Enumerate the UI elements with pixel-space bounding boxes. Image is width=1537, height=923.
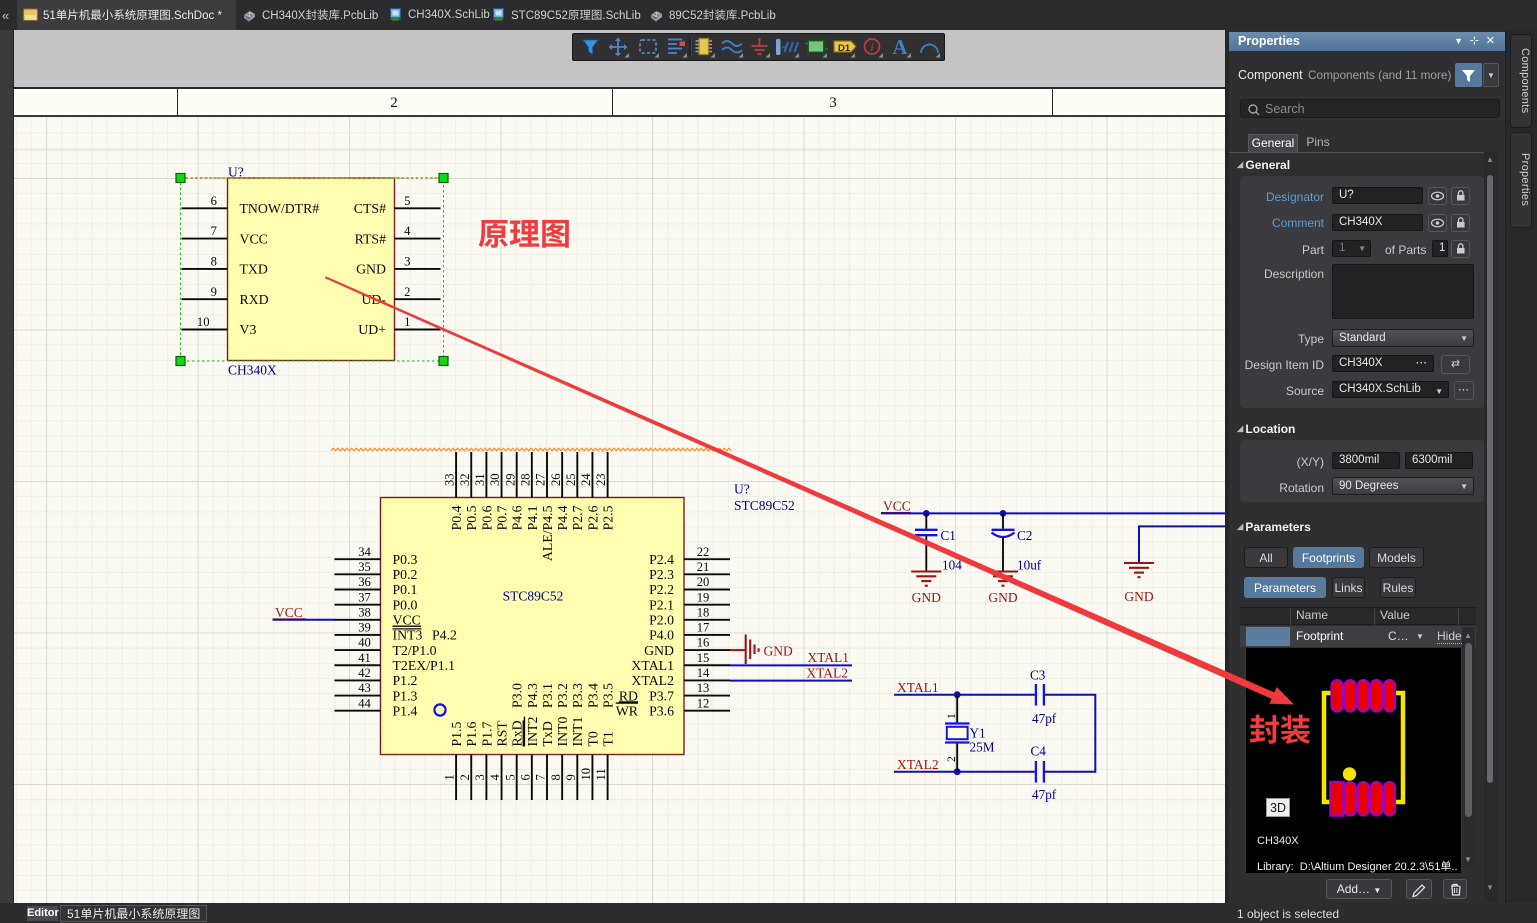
svg-text:P1.4: P1.4 bbox=[393, 703, 418, 718]
pin 21 bbox=[684, 573, 730, 575]
svg-text:30: 30 bbox=[488, 473, 502, 486]
svg-text:P2.2: P2.2 bbox=[649, 582, 674, 597]
pin 44 bbox=[335, 710, 381, 712]
svg-text:38: 38 bbox=[358, 605, 371, 619]
ground GND under C2 bbox=[988, 570, 1018, 572]
svg-text:10: 10 bbox=[197, 315, 210, 329]
svg-text:C3: C3 bbox=[1030, 668, 1046, 683]
footprint courtyard bbox=[1324, 693, 1403, 802]
svg-text:4: 4 bbox=[404, 224, 411, 238]
svg-text:10: 10 bbox=[579, 768, 593, 781]
svg-text:6: 6 bbox=[518, 774, 532, 780]
pin 8 INT0 bbox=[561, 755, 563, 801]
svg-text:XTAL1: XTAL1 bbox=[631, 658, 674, 673]
svg-text:2: 2 bbox=[946, 756, 958, 762]
svg-text:UD+: UD+ bbox=[358, 322, 386, 337]
svg-text:6: 6 bbox=[211, 194, 217, 208]
svg-text:P4.1: P4.1 bbox=[525, 505, 540, 530]
svg-text:GND: GND bbox=[644, 643, 674, 658]
svg-text:25M: 25M bbox=[970, 740, 995, 755]
svg-text:31: 31 bbox=[473, 473, 487, 486]
pin 4 RST bbox=[501, 755, 503, 801]
pin 33 P0.4 bbox=[455, 452, 457, 498]
svg-text:33: 33 bbox=[443, 473, 457, 486]
svg-text:P4.0: P4.0 bbox=[649, 628, 674, 643]
svg-text:STC89C52: STC89C52 bbox=[503, 589, 564, 604]
svg-text:34: 34 bbox=[358, 545, 371, 559]
pin 3 GND bbox=[395, 268, 441, 270]
pin 16 bbox=[684, 649, 730, 651]
svg-text:P0.4: P0.4 bbox=[449, 505, 464, 530]
pin 13 bbox=[684, 695, 730, 697]
svg-text:1: 1 bbox=[946, 713, 958, 719]
svg-text:RTS#: RTS# bbox=[355, 231, 386, 246]
pin 9 INT1 bbox=[576, 755, 578, 801]
svg-text:29: 29 bbox=[503, 473, 517, 486]
svg-text:22: 22 bbox=[697, 545, 710, 559]
svg-text:P1.5: P1.5 bbox=[449, 721, 464, 746]
wire C3 right bbox=[1045, 695, 1095, 772]
svg-text:P0.2: P0.2 bbox=[393, 567, 418, 582]
svg-text:C4: C4 bbox=[1031, 744, 1047, 759]
pin 4 RTS# bbox=[395, 238, 441, 240]
svg-text:P3.1: P3.1 bbox=[540, 683, 555, 708]
pin 5 RxD bbox=[516, 755, 518, 801]
svg-text:INT2: INT2 bbox=[525, 717, 540, 747]
capacitor C2 bbox=[1002, 513, 1004, 528]
svg-text:P0.5: P0.5 bbox=[464, 505, 479, 530]
svg-text:P0.6: P0.6 bbox=[479, 505, 494, 530]
svg-text:4: 4 bbox=[488, 774, 502, 781]
svg-text:26: 26 bbox=[549, 473, 563, 486]
svg-text:P0.1: P0.1 bbox=[393, 582, 418, 597]
svg-text:P4.2: P4.2 bbox=[432, 628, 457, 643]
svg-text:P4.4: P4.4 bbox=[555, 505, 570, 530]
component U? CH340X bbox=[228, 178, 395, 361]
pin 8 TXD bbox=[182, 268, 228, 270]
capacitor C1 bbox=[925, 513, 927, 528]
svg-text:40: 40 bbox=[358, 636, 371, 650]
junction XTAL1/Y1 bbox=[954, 691, 961, 698]
svg-text:13: 13 bbox=[697, 681, 710, 695]
floating dark toolbar bbox=[572, 33, 945, 61]
svg-text:5: 5 bbox=[404, 194, 410, 208]
pin 35 bbox=[335, 573, 381, 575]
svg-text:P2.1: P2.1 bbox=[649, 597, 674, 612]
pin 7 VCC bbox=[182, 238, 228, 240]
svg-text:8: 8 bbox=[549, 774, 563, 780]
svg-text:GND: GND bbox=[912, 590, 941, 605]
svg-text:P2.3: P2.3 bbox=[649, 567, 674, 582]
toolbar align icon bbox=[668, 40, 682, 54]
svg-text:RXD: RXD bbox=[240, 292, 269, 307]
pin 42 bbox=[335, 679, 381, 681]
crystal Y1 pin 2 bbox=[956, 743, 958, 772]
svg-text:P1.6: P1.6 bbox=[464, 721, 479, 746]
pin 17 bbox=[684, 634, 730, 636]
svg-text:GND: GND bbox=[764, 644, 793, 659]
svg-text:36: 36 bbox=[358, 575, 371, 589]
wire VCC to pin38 bbox=[273, 619, 336, 621]
svg-text:P3.5: P3.5 bbox=[601, 683, 616, 708]
svg-text:C1: C1 bbox=[941, 528, 956, 543]
svg-text:CTS#: CTS# bbox=[354, 201, 386, 216]
svg-text:P3.2: P3.2 bbox=[555, 683, 570, 708]
svg-text:GND: GND bbox=[356, 262, 386, 277]
pin 18 bbox=[684, 619, 730, 621]
toolbar select-rect icon bbox=[640, 40, 656, 53]
pin 29 P4.6 bbox=[516, 452, 518, 498]
svg-text:P1.2: P1.2 bbox=[393, 673, 418, 688]
svg-text:UD-: UD- bbox=[361, 292, 386, 307]
svg-text:24: 24 bbox=[579, 473, 593, 486]
svg-text:9: 9 bbox=[564, 774, 578, 780]
svg-text:P3.4: P3.4 bbox=[585, 683, 600, 708]
svg-text:RST: RST bbox=[494, 721, 509, 747]
pin 19 bbox=[684, 604, 730, 606]
svg-text:P3.7: P3.7 bbox=[649, 688, 674, 703]
svg-text:GND: GND bbox=[1124, 589, 1153, 604]
junction XTAL2/Y1 bbox=[954, 768, 961, 775]
pin 6 INT2 bbox=[531, 755, 533, 801]
bottom status bar bbox=[0, 903, 1537, 923]
ground GND right bbox=[1124, 562, 1154, 564]
toolbar sheet-symbol icon bbox=[808, 41, 824, 53]
pin1 dot bbox=[1343, 767, 1356, 780]
svg-text:RxD: RxD bbox=[510, 720, 525, 746]
toolbar place-wire icon bbox=[722, 41, 742, 53]
svg-text:18: 18 bbox=[697, 605, 710, 619]
svg-text:VCC: VCC bbox=[240, 231, 268, 246]
junction C1 bbox=[923, 510, 930, 517]
svg-text:21: 21 bbox=[697, 560, 710, 574]
pin 2 UD- bbox=[395, 298, 441, 300]
svg-text:2: 2 bbox=[404, 285, 410, 299]
svg-text:16: 16 bbox=[697, 636, 710, 650]
svg-text:23: 23 bbox=[594, 473, 608, 486]
svg-text:XTAL2: XTAL2 bbox=[806, 665, 848, 680]
svg-text:17: 17 bbox=[697, 621, 710, 635]
svg-text:T2/P1.0: T2/P1.0 bbox=[393, 643, 437, 658]
toolbar harness icon bbox=[776, 39, 798, 55]
wire XTAL1 upper bbox=[730, 664, 852, 666]
svg-text:7: 7 bbox=[534, 774, 548, 780]
svg-text:V3: V3 bbox=[240, 322, 257, 337]
svg-text:ALE/P4.5: ALE/P4.5 bbox=[540, 505, 555, 561]
svg-text:T1: T1 bbox=[601, 731, 616, 746]
svg-text:104: 104 bbox=[942, 558, 962, 573]
svg-text:INT3: INT3 bbox=[393, 628, 423, 643]
wire XTAL2 upper bbox=[730, 680, 852, 682]
pin 39 bbox=[335, 634, 381, 636]
svg-text:VCC: VCC bbox=[275, 605, 303, 620]
toolbar arc icon bbox=[921, 45, 938, 54]
svg-text:19: 19 bbox=[697, 590, 710, 604]
properties panel bbox=[1225, 30, 1229, 903]
pin 20 bbox=[684, 589, 730, 591]
junction C2 bbox=[1000, 510, 1007, 517]
svg-text:44: 44 bbox=[358, 696, 371, 710]
pin 3 P1.7 bbox=[485, 755, 487, 801]
svg-text:T0: T0 bbox=[585, 731, 600, 746]
svg-text:P4.3: P4.3 bbox=[525, 683, 540, 708]
pin 6 TNOW/DTR# bbox=[182, 207, 228, 209]
svg-text:2: 2 bbox=[458, 774, 472, 780]
wire VCC rail bbox=[881, 512, 1226, 514]
svg-text:CH340X: CH340X bbox=[228, 363, 277, 378]
pin 27 ALE/P4.5 bbox=[546, 452, 548, 498]
svg-text:A: A bbox=[892, 35, 908, 59]
svg-text:10uf: 10uf bbox=[1017, 558, 1042, 573]
pin 1 P1.5 bbox=[455, 755, 457, 801]
svg-text:3: 3 bbox=[404, 255, 410, 269]
svg-text:42: 42 bbox=[358, 666, 371, 680]
svg-text:Y1: Y1 bbox=[970, 726, 986, 741]
svg-text:41: 41 bbox=[358, 651, 371, 665]
toolbar no-erc icon bbox=[865, 39, 880, 54]
ground GND under C1 bbox=[911, 570, 941, 572]
pin 41 bbox=[335, 664, 381, 666]
svg-text:14: 14 bbox=[697, 666, 710, 680]
pin 28 P4.1 bbox=[531, 452, 533, 498]
wire XTAL1 lower bbox=[894, 694, 1035, 696]
svg-text:P2.0: P2.0 bbox=[649, 613, 674, 628]
svg-text:P2.5: P2.5 bbox=[601, 505, 616, 530]
toolbar move/cross icon bbox=[609, 38, 628, 57]
svg-text:32: 32 bbox=[458, 473, 472, 486]
svg-text:35: 35 bbox=[358, 560, 371, 574]
svg-text:25: 25 bbox=[564, 473, 578, 486]
svg-text:INT1: INT1 bbox=[570, 717, 585, 747]
no-ERC marker circle bbox=[434, 704, 445, 715]
svg-text:INT0: INT0 bbox=[555, 717, 570, 747]
pin 31 P0.6 bbox=[485, 452, 487, 498]
svg-text:43: 43 bbox=[358, 681, 371, 695]
svg-text:VCC: VCC bbox=[883, 499, 911, 514]
pin 23 P2.5 bbox=[607, 452, 609, 498]
svg-text:U?: U? bbox=[734, 482, 750, 497]
wire XTAL2 lower bbox=[894, 771, 1035, 773]
pin 15 bbox=[684, 664, 730, 666]
svg-text:P3.3: P3.3 bbox=[570, 683, 585, 708]
svg-text:15: 15 bbox=[697, 651, 710, 665]
pin 10 V3 bbox=[182, 329, 228, 331]
pin 34 bbox=[335, 558, 381, 560]
svg-text:1: 1 bbox=[443, 774, 457, 780]
pin 22 bbox=[684, 558, 730, 560]
wire to right ground bbox=[1139, 526, 1226, 562]
pin 9 RXD bbox=[182, 298, 228, 300]
pin 32 P0.5 bbox=[470, 452, 472, 498]
svg-text:VCC: VCC bbox=[393, 613, 421, 628]
svg-text:7: 7 bbox=[211, 224, 217, 238]
pin 10 T0 bbox=[591, 755, 593, 801]
wire squiggle marker bbox=[331, 448, 731, 451]
svg-text:27: 27 bbox=[534, 473, 548, 486]
svg-text:XTAL2: XTAL2 bbox=[631, 673, 674, 688]
svg-text:9: 9 bbox=[211, 285, 217, 299]
svg-text:P1.7: P1.7 bbox=[479, 721, 494, 746]
svg-text:3: 3 bbox=[473, 774, 487, 780]
schematic drawing SVG bbox=[14, 87, 1225, 903]
svg-text:P0.3: P0.3 bbox=[393, 552, 418, 567]
svg-text:TXD: TXD bbox=[240, 262, 268, 277]
pin 40 bbox=[335, 649, 381, 651]
pin 1 UD+ bbox=[395, 329, 441, 331]
svg-text:T2EX/P1.1: T2EX/P1.1 bbox=[393, 658, 456, 673]
svg-text:XTAL2: XTAL2 bbox=[897, 757, 939, 772]
svg-text:P4.6: P4.6 bbox=[510, 505, 525, 530]
toolbar place-part icon bbox=[696, 39, 713, 55]
pin 37 bbox=[335, 604, 381, 606]
pin 11 T1 bbox=[607, 755, 609, 801]
svg-text:47pf: 47pf bbox=[1032, 787, 1057, 802]
svg-text:TxD: TxD bbox=[540, 721, 555, 746]
pin 38 bbox=[335, 619, 381, 621]
svg-text:TNOW/DTR#: TNOW/DTR# bbox=[240, 201, 320, 216]
pin 14 bbox=[684, 679, 730, 681]
schematic canvas with grid bbox=[14, 117, 1225, 903]
pin 43 bbox=[335, 695, 381, 697]
pin 24 P2.6 bbox=[591, 452, 593, 498]
svg-text:47pf: 47pf bbox=[1032, 711, 1057, 726]
svg-text:P0.0: P0.0 bbox=[393, 597, 418, 612]
toolbar filter icon bbox=[583, 40, 598, 54]
svg-text:STC89C52: STC89C52 bbox=[734, 498, 795, 513]
toolbar D1 tag icon bbox=[834, 41, 856, 52]
svg-text:WR: WR bbox=[616, 703, 639, 718]
annotation red arrow line bbox=[325, 276, 1278, 700]
svg-text:P3.6: P3.6 bbox=[649, 703, 674, 718]
pin 36 bbox=[335, 589, 381, 591]
svg-text:XTAL1: XTAL1 bbox=[897, 680, 939, 695]
gray workspace above sheet bbox=[14, 30, 1225, 87]
pin 30 P0.7 bbox=[501, 452, 503, 498]
pin 5 CTS# bbox=[395, 207, 441, 209]
toolbar GND icon bbox=[752, 38, 768, 54]
svg-text:i: i bbox=[870, 42, 873, 54]
svg-text:5: 5 bbox=[503, 774, 517, 780]
svg-text:P2.4: P2.4 bbox=[649, 552, 674, 567]
toolbar separator bbox=[689, 37, 691, 57]
svg-text:39: 39 bbox=[358, 621, 371, 635]
svg-text:11: 11 bbox=[594, 768, 608, 780]
ground GND at pin16 bbox=[730, 649, 745, 651]
pin 12 bbox=[684, 710, 730, 712]
pin 26 P4.4 bbox=[561, 452, 563, 498]
svg-text:RD: RD bbox=[619, 688, 638, 703]
top document tab bar bbox=[0, 0, 1537, 30]
svg-text:C2: C2 bbox=[1017, 528, 1032, 543]
svg-text:28: 28 bbox=[518, 473, 532, 486]
selection outline bbox=[181, 178, 444, 361]
svg-text:D1: D1 bbox=[838, 43, 851, 54]
svg-text:37: 37 bbox=[358, 590, 371, 604]
svg-text:20: 20 bbox=[697, 575, 710, 589]
svg-text:P2.6: P2.6 bbox=[585, 505, 600, 530]
pin 25 P2.7 bbox=[576, 452, 578, 498]
crystal Y1 bbox=[945, 722, 970, 724]
sheet border band with column numbers bbox=[14, 87, 1225, 117]
svg-text:P0.7: P0.7 bbox=[494, 505, 509, 530]
component U? STC89C52 bbox=[381, 498, 685, 755]
svg-text:GND: GND bbox=[988, 590, 1017, 605]
svg-text:12: 12 bbox=[697, 696, 710, 710]
svg-text:P1.3: P1.3 bbox=[393, 688, 418, 703]
pin 2 P1.6 bbox=[470, 755, 472, 801]
svg-text:P3.0: P3.0 bbox=[510, 683, 525, 708]
crystal Y1 pin 1 bbox=[956, 695, 958, 724]
svg-text:8: 8 bbox=[211, 255, 217, 269]
left collapsed panel strip bbox=[0, 30, 14, 903]
svg-text:1: 1 bbox=[404, 315, 410, 329]
pin 7 TxD bbox=[546, 755, 548, 801]
svg-text:P2.7: P2.7 bbox=[570, 505, 585, 530]
svg-text:XTAL1: XTAL1 bbox=[807, 650, 849, 665]
